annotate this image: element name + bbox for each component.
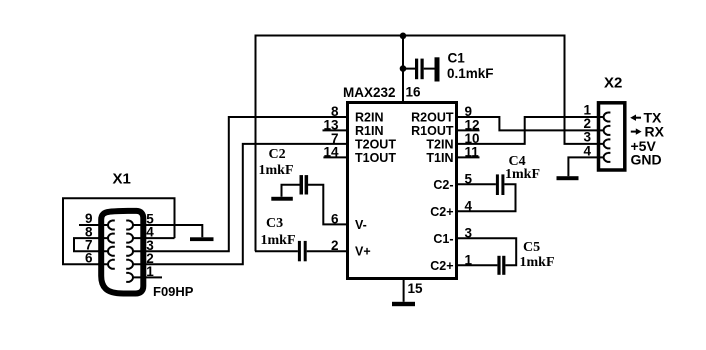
svg-text:6: 6 — [331, 211, 339, 226]
svg-text:GND: GND — [631, 151, 662, 167]
svg-text:C2+: C2+ — [430, 205, 453, 219]
wire net R2OUT: IC pin 9 jog to X2 pin 2 — [457, 117, 599, 130]
wire loop X1 pin 6 to pin 4 — [63, 198, 175, 264]
X2 contact pin 3 — [597, 139, 610, 148]
wire pin 11 stub T1IN — [457, 156, 480, 158]
X1 contact pin 3 — [126, 247, 146, 256]
capacitor C4 with loop IC pin5 to pin4 — [457, 174, 516, 211]
wire IC pin 15 to ground — [403, 279, 405, 302]
X1 contact pin 5 — [126, 221, 146, 230]
X1 contact pin 1 — [126, 273, 146, 282]
svg-text:C1: C1 — [448, 51, 466, 66]
connector X1 DB9 body F09HP — [101, 211, 143, 294]
svg-text:R2OUT: R2OUT — [411, 111, 454, 125]
wire X1 pin 5 to ground — [147, 225, 203, 237]
svg-text:1: 1 — [465, 252, 473, 267]
IC U1 MAX232 body — [348, 103, 457, 279]
svg-text:4: 4 — [583, 144, 591, 159]
capacitor C3 — [255, 241, 348, 261]
label TX with arrow left — [630, 110, 662, 126]
capacitor C2 — [282, 175, 309, 197]
svg-text:1mkF: 1mkF — [505, 167, 540, 182]
node junction dot at C1 tap — [400, 65, 407, 72]
wire X1 pin 9 stub — [79, 224, 98, 226]
svg-text:4: 4 — [465, 198, 473, 213]
ground bar at X2 pin 4 — [557, 176, 579, 180]
wire jumper X1 pins 8-7 — [74, 238, 103, 251]
svg-text:F09HP: F09HP — [153, 284, 194, 299]
X1 contact pin 6 — [98, 260, 115, 269]
svg-text:1mkF: 1mkF — [259, 163, 294, 178]
svg-text:15: 15 — [408, 281, 424, 296]
wire X2 pin 4 to ground — [568, 157, 597, 176]
svg-text:T2OUT: T2OUT — [355, 137, 396, 151]
svg-text:X2: X2 — [604, 75, 622, 92]
svg-text:0.1mkF: 0.1mkF — [447, 66, 494, 81]
svg-text:V+: V+ — [355, 245, 371, 259]
wire net V-: IC pin 6 to C2 right plate — [308, 185, 348, 225]
X2 contact pin 1 — [597, 113, 610, 122]
svg-text:1mkF: 1mkF — [520, 255, 555, 270]
wire net R2IN: DB9 pin3 to IC pin 8 — [147, 117, 348, 251]
wire pin 14 stub T1OUT — [323, 156, 347, 158]
svg-text:6: 6 — [85, 251, 93, 266]
X2 contact pin 2 — [597, 126, 610, 135]
wire VCC rail: left vertical, top rail, right drop to X2 pin 3 — [256, 36, 599, 252]
wire net T2OUT: DB9 pin2 to IC pin 7 — [147, 144, 348, 264]
ground bar below C2 — [271, 197, 293, 201]
svg-text:C2-: C2- — [433, 178, 453, 192]
svg-text:MAX232: MAX232 — [343, 85, 396, 100]
svg-text:16: 16 — [406, 85, 422, 100]
connector X2 body — [599, 103, 625, 170]
svg-text:V-: V- — [355, 218, 367, 232]
svg-text:14: 14 — [323, 144, 339, 159]
svg-text:2: 2 — [331, 238, 339, 253]
capacitor C1 — [403, 57, 440, 81]
svg-text:C3: C3 — [266, 216, 283, 231]
wire pin 12 stub R1OUT — [457, 129, 480, 131]
wire X1 pin 1 stub — [147, 276, 163, 278]
X1 contact pin 2 — [126, 260, 146, 269]
label RX with arrow right — [631, 124, 665, 140]
X1 contact pin 7 — [98, 247, 115, 256]
svg-text:3: 3 — [583, 130, 591, 145]
svg-text:R1IN: R1IN — [355, 124, 383, 138]
ground bar at X1 pin 5 — [190, 237, 214, 241]
svg-text:C5: C5 — [523, 240, 540, 255]
svg-text:1mkF: 1mkF — [261, 233, 296, 248]
svg-text:11: 11 — [465, 144, 480, 159]
svg-text:5: 5 — [465, 171, 473, 186]
svg-text:X1: X1 — [113, 171, 131, 188]
X1 contact pin 9 — [98, 221, 115, 230]
X1 contact pin 4 — [126, 234, 146, 243]
ground bar below IC pin 15 — [392, 302, 415, 306]
X2 contact pin 4 — [597, 153, 610, 162]
svg-text:C2+: C2+ — [430, 259, 453, 273]
wire pin 13 stub R1IN — [323, 129, 348, 131]
wire pin16 drop from rail to IC top — [402, 36, 404, 104]
svg-text:T2IN: T2IN — [426, 137, 453, 151]
capacitor C5 with loop IC pin3 to pin1 — [457, 238, 517, 274]
X1 contact pin 8 — [98, 234, 115, 243]
svg-text:R1OUT: R1OUT — [411, 124, 454, 138]
svg-text:3: 3 — [465, 225, 473, 240]
svg-text:C2: C2 — [269, 147, 286, 162]
svg-text:T1OUT: T1OUT — [355, 151, 396, 165]
wire net T2IN: IC pin 10 jog to X2 pin 1 — [457, 117, 599, 144]
svg-text:C1-: C1- — [433, 232, 453, 246]
svg-text:R2IN: R2IN — [355, 111, 383, 125]
svg-text:T1IN: T1IN — [426, 151, 453, 165]
node junction dot on top rail — [400, 33, 407, 40]
